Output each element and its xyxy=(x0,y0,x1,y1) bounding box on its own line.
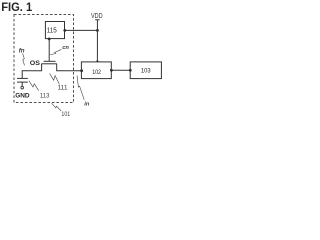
VDD supply terminal bar xyxy=(95,19,99,21)
svg-text:fn: fn xyxy=(19,48,25,55)
svg-text:in: in xyxy=(84,101,90,107)
leader from fn to node xyxy=(23,53,25,65)
leader from 111 to transistor xyxy=(50,73,60,84)
wire block 102 to block 103 xyxy=(111,69,130,71)
wire 115 right edge to VDD line xyxy=(65,29,98,31)
leader from cn to gate wire xyxy=(50,49,61,54)
transistor 111 channel bar xyxy=(41,63,57,65)
junction dot at block 102 top xyxy=(96,60,98,62)
junction dot on VDD line xyxy=(96,29,99,32)
svg-text:OS: OS xyxy=(30,60,41,67)
leader from in to wire xyxy=(77,76,84,100)
transistor 111 right (drain) lead and wire to block 102 xyxy=(57,64,82,71)
leader from 101 to dashed boundary xyxy=(52,103,62,111)
capacitor 113 bottom plate xyxy=(17,81,28,83)
gate wire from 115 down to transistor gate xyxy=(48,39,50,62)
svg-text:115: 115 xyxy=(47,27,57,34)
leader from 113 to capacitor xyxy=(29,81,39,91)
svg-text:FIG. 1: FIG. 1 xyxy=(1,0,32,14)
block 102 xyxy=(81,62,111,79)
ground open-circle terminal xyxy=(21,86,24,89)
dashed circuit block 101 boundary xyxy=(14,15,74,103)
svg-text:cn: cn xyxy=(62,45,69,51)
svg-text:103: 103 xyxy=(141,68,151,75)
svg-text:113: 113 xyxy=(40,93,50,100)
stub from capacitor to ground terminal xyxy=(21,82,23,86)
terminal dot at 102 left edge xyxy=(80,69,83,72)
svg-text:101: 101 xyxy=(61,111,70,118)
svg-text:VDD: VDD xyxy=(91,13,103,20)
terminal dot at 102 right edge xyxy=(110,69,113,72)
block 115 xyxy=(45,22,64,39)
svg-text:102: 102 xyxy=(92,69,101,76)
transistor 111 left (source) lead to node fn xyxy=(22,64,41,79)
svg-text:111: 111 xyxy=(58,85,68,92)
transistor 111 gate bar xyxy=(44,60,56,62)
VDD vertical wire down to block 102 xyxy=(96,20,98,62)
svg-text:GND: GND xyxy=(15,93,29,100)
capacitor 113 top plate xyxy=(17,77,28,79)
junction dot at 115 output xyxy=(63,29,66,32)
block 103 xyxy=(130,62,161,79)
terminal dot at 103 left edge xyxy=(129,69,132,72)
junction dot under block 115 xyxy=(48,38,51,41)
